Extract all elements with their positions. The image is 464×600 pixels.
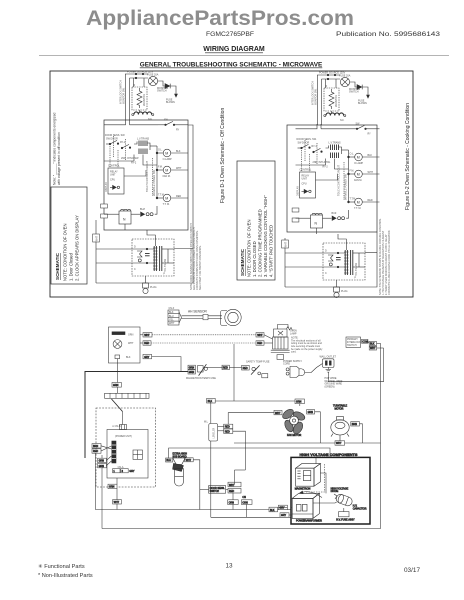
- svg-text:RED: RED: [257, 342, 262, 345]
- svg-text:SWITCH: SWITCH: [347, 344, 357, 347]
- hot wire note block: [325, 377, 343, 388]
- svg-text:TRANSFORMER: TRANSFORMER: [303, 520, 322, 523]
- door sensing switch cluster: [209, 486, 226, 494]
- magnetron antenna wire arrow: [302, 492, 322, 498]
- D2 bottom loop wire: [285, 232, 377, 287]
- wire fan feed y412.7: [233, 412, 274, 414]
- wire bus A y401: [211, 400, 295, 402]
- power unit inner board: [107, 430, 148, 479]
- svg-text:WALL OUTLET: WALL OUTLET: [320, 356, 337, 359]
- svg-text:LEVELER: LEVELER: [213, 427, 216, 438]
- D2 transformer section: [323, 234, 365, 298]
- svg-text:RED: RED: [223, 367, 228, 370]
- long wire to oven lamp 2: [151, 342, 256, 344]
- oil capacitor dark band: [173, 463, 184, 471]
- D2 condition note box: [237, 161, 275, 280]
- svg-text:GRY: GRY: [279, 507, 285, 510]
- vertical x211: [210, 401, 212, 424]
- svg-text:4. “START” PAD TOUCHED: 4. “START” PAD TOUCHED: [269, 225, 274, 277]
- svg-text:SEE CHART FOR SWITCH OPERATION: SEE CHART FOR SWITCH OPERATION.: [199, 245, 202, 290]
- svg-text:RED: RED: [93, 450, 98, 453]
- svg-text:WHT: WHT: [144, 334, 150, 337]
- magnetron bus wire: [85, 372, 188, 459]
- wire capacitor right: [193, 460, 200, 510]
- svg-text:GRN: GRN: [109, 486, 115, 489]
- wire ML up to fan feed: [228, 413, 233, 425]
- hv diode lead: [334, 494, 337, 499]
- svg-text:WHT: WHT: [284, 241, 287, 247]
- svg-text:NOTE: CONDITION OF OVEN: NOTE: CONDITION OF OVEN: [247, 220, 252, 277]
- GRN bottom label: [108, 484, 117, 488]
- svg-text:MAGNETRON TEMP FUSE: MAGNETRON TEMP FUSE: [186, 377, 216, 380]
- svg-text:SCHEMATIC: SCHEMATIC: [240, 248, 245, 276]
- svg-text:WHT: WHT: [275, 412, 281, 415]
- svg-text:2. COOKING TIME PROGRAMMED: 2. COOKING TIME PROGRAMMED: [258, 209, 263, 277]
- svg-text:RED: RED: [225, 430, 230, 433]
- svg-text:CORD: CORD: [283, 363, 290, 366]
- power transformer 3d body: [292, 498, 313, 518]
- svg-text:AH SENSOR: AH SENSOR: [188, 310, 207, 314]
- wire y509: [96, 452, 270, 510]
- turntable motor body: [331, 417, 349, 443]
- svg-text:BLU: BLU: [169, 315, 174, 318]
- svg-text:RED: RED: [229, 490, 234, 493]
- wire ML right drop: [233, 431, 246, 448]
- svg-text:BLK: BLK: [126, 356, 131, 359]
- svg-text:CAPACITOR: CAPACITOR: [353, 507, 367, 510]
- wire fuse to red labels: [207, 366, 223, 368]
- svg-text:GRY: GRY: [129, 470, 135, 473]
- wires labels to CN-A: [101, 446, 111, 449]
- wire fan right: [307, 410, 315, 414]
- svg-text:with voltage present in off co: with voltage present in off condition: [57, 132, 61, 185]
- GRN label box drop: [112, 383, 121, 388]
- svg-text:HIGH VOLTAGE COMPONENTS: HIGH VOLTAGE COMPONENTS: [300, 452, 358, 457]
- svg-text:WHT: WHT: [95, 235, 98, 241]
- svg-text:CN-F: CN-F: [169, 307, 175, 310]
- vertical x234: [233, 344, 235, 401]
- svg-text:3. VARIABLE COOKING CONTROL “H: 3. VARIABLE COOKING CONTROL “HIGH”: [263, 195, 268, 277]
- M.L. unit: [209, 424, 218, 442]
- AH sensor body: [221, 311, 228, 326]
- wire turntable right drop: [359, 424, 362, 443]
- D1 outer loop wire left: [95, 220, 97, 283]
- wire to transformer primary: [285, 252, 323, 254]
- wire bus y443: [234, 442, 381, 444]
- D1 outer loop wire right: [96, 125, 193, 283]
- fan motor blades: [281, 407, 306, 435]
- wire labels GRN pair: [188, 365, 195, 369]
- right boundary wire: [102, 343, 381, 528]
- lamp unit drop wire: [116, 359, 118, 383]
- svg-text:WHT: WHT: [336, 442, 342, 445]
- svg-text:DIODE: DIODE: [331, 490, 339, 493]
- oil capacitor body: [175, 469, 184, 486]
- CN-A lower boxes: [113, 469, 120, 473]
- svg-text:MAGNETRON: MAGNETRON: [295, 488, 311, 491]
- svg-text:GRN: GRN: [128, 333, 134, 336]
- wire labels BRN RED: [92, 444, 101, 448]
- svg-text:GRY: GRY: [144, 356, 150, 359]
- svg-text:GRN: GRN: [189, 371, 195, 374]
- fuse assembly box: [339, 512, 349, 517]
- svg-text:WHT: WHT: [128, 342, 134, 345]
- svg-text:NOTE: CONDITION OF OVEN: NOTE: CONDITION OF OVEN: [63, 224, 68, 281]
- svg-text:WHT: WHT: [370, 347, 376, 350]
- svg-text:1. DOOR CLOSED: 1. DOOR CLOSED: [252, 241, 257, 277]
- svg-text:RED: RED: [144, 342, 149, 345]
- wire lamp to label GRN: [140, 334, 143, 336]
- wire y517: [211, 516, 291, 518]
- D1 condition note box: [51, 187, 87, 284]
- svg-text:FAN MOTOR: FAN MOTOR: [287, 434, 301, 437]
- svg-text:YEL: YEL: [169, 319, 174, 322]
- svg-text:03/17: 03/17: [404, 567, 420, 574]
- D1 inner components: [101, 119, 188, 231]
- D1 transformer section: [132, 230, 174, 294]
- magnetron 3d body: [296, 468, 314, 486]
- note text block mid: [291, 337, 323, 354]
- svg-text:Publication No. 5995686143: Publication No. 5995686143: [336, 31, 441, 38]
- WHT label top of HV: [335, 441, 345, 445]
- svg-text:WHT: WHT: [114, 501, 120, 504]
- horizontal rule under header: [39, 55, 449, 57]
- svg-text:(GREEN): (GREEN): [325, 385, 335, 388]
- wire label boxes right of lamp unit: [143, 333, 152, 337]
- svg-text:GRN: GRN: [99, 465, 105, 468]
- hv capacitor cylinder: [335, 493, 353, 507]
- AH sensor connector pin labels: [169, 307, 175, 325]
- svg-text:MOTOR: MOTOR: [335, 407, 344, 410]
- svg-text:BLU: BLU: [166, 459, 171, 462]
- right inner loop: [328, 348, 383, 382]
- GRY wire to bus: [152, 357, 181, 372]
- CN-B connector stub: [120, 425, 127, 430]
- lamp unit box: [109, 327, 141, 363]
- svg-text:LAMP: LAMP: [290, 332, 297, 335]
- svg-text:CN: CN: [242, 496, 246, 499]
- svg-text:BRN: BRN: [352, 423, 357, 426]
- wire bus y448: [169, 448, 330, 458]
- relay grid on board: [133, 450, 142, 459]
- oil capacitor funnel: [173, 458, 185, 464]
- CN-A connector bar: [112, 441, 116, 463]
- svg-text:H.V. FUSE ASSY: H.V. FUSE ASSY: [336, 518, 355, 521]
- svg-text:WHT: WHT: [169, 322, 175, 325]
- svg-text:AppliancePartsPros.com: AppliancePartsPros.com: [86, 6, 354, 30]
- svg-text:RED: RED: [225, 426, 230, 429]
- svg-text:ORN: ORN: [242, 501, 248, 504]
- svg-text:RED: RED: [243, 367, 248, 370]
- svg-text:BLK: BLK: [270, 509, 275, 512]
- svg-text:WIRING DIAGRAM: WIRING DIAGRAM: [203, 46, 265, 53]
- D2 control section box: [287, 125, 377, 232]
- svg-text:WHT: WHT: [257, 334, 263, 337]
- vertical x102: [101, 455, 103, 529]
- oven lamp socket: [274, 329, 288, 337]
- long wire to oven lamp 1: [152, 334, 256, 336]
- WHT bottom label: [113, 500, 122, 504]
- svg-text:Note: “______” Indicates compo: Note: “______” Indicates components ener…: [53, 113, 57, 185]
- wire power unit drop: [116, 478, 118, 484]
- GRY labels into HV box: [278, 505, 287, 509]
- svg-text:SAFETY TEMP FUSE: SAFETY TEMP FUSE: [246, 361, 270, 364]
- AH sensor harness wire: [182, 315, 223, 317]
- power unit dashed box: [96, 408, 156, 487]
- magnetron temp fuse: [198, 366, 204, 372]
- lamp unit dark header: [112, 332, 125, 335]
- wire label left loop: [93, 234, 100, 242]
- svg-text:SWITCH: SWITCH: [210, 490, 220, 493]
- wire to transformer secondary: [96, 262, 132, 264]
- D1 top power section: [120, 71, 178, 121]
- oven lamp top loop: [278, 325, 289, 330]
- D2 left loop wire: [284, 238, 286, 287]
- svg-text:1. Door Closed: 1. Door Closed: [69, 252, 74, 281]
- cord to outlet lead: [305, 364, 323, 373]
- AH sensor connector: [168, 310, 179, 325]
- svg-text:COM: COM: [362, 340, 368, 343]
- svg-text:GRN: GRN: [99, 460, 105, 463]
- terminal strip: [116, 387, 118, 393]
- svg-text:BLK: BLK: [370, 343, 375, 346]
- svg-text:BLK: BLK: [169, 311, 174, 314]
- wires labels to lamp: [264, 335, 273, 339]
- troubleshooting schematic outer box: [50, 71, 413, 297]
- fan motor hub: [290, 416, 299, 425]
- svg-text:GRN: GRN: [189, 367, 195, 370]
- svg-text:SCHEMATIC: SCHEMATIC: [55, 252, 60, 280]
- svg-text:GRN: GRN: [308, 411, 314, 414]
- lamp bulb symbol: [113, 340, 122, 349]
- wire to transformer primary: [96, 248, 132, 250]
- wire fan top drop: [299, 404, 301, 406]
- wire dashed box to loop: [365, 252, 377, 254]
- svg-text:M.L: M.L: [204, 421, 209, 424]
- wire to transformer secondary: [285, 266, 323, 268]
- high voltage components box: [291, 457, 370, 524]
- svg-text:BRN: BRN: [93, 445, 98, 448]
- svg-text:Figure D-2 Oven Schematic - Co: Figure D-2 Oven Schematic - Cooking Cond…: [405, 103, 411, 210]
- svg-text:FGMC2765PBF: FGMC2765PBF: [206, 31, 254, 38]
- lamp unit connector: [115, 355, 120, 359]
- hv internal dashed route: [306, 464, 325, 492]
- svg-text:BLK: BLK: [208, 400, 213, 403]
- svg-text:cord.: cord.: [291, 351, 297, 354]
- svg-text:GRN: GRN: [296, 401, 302, 404]
- secondary interlock switch block: [346, 337, 361, 347]
- svg-text:Figure D-1 Oven Schematic - Of: Figure D-1 Oven Schematic - Off Conditio…: [220, 108, 226, 203]
- D2 top power section: [312, 72, 370, 122]
- svg-text:GRY: GRY: [281, 514, 287, 517]
- svg-text:ORN: ORN: [229, 501, 235, 504]
- svg-text:(POWER UNIT): (POWER UNIT): [115, 435, 132, 438]
- svg-text:✳ Functional Parts: ✳ Functional Parts: [38, 563, 85, 570]
- svg-text:13: 13: [225, 563, 233, 570]
- wires door sensing cluster: [200, 488, 209, 490]
- wire dashed box to loop: [174, 248, 193, 250]
- strip diagonal lead: [112, 399, 123, 412]
- D2 inner components: [292, 123, 379, 235]
- svg-text:WHT: WHT: [186, 459, 192, 462]
- svg-text:CONTACTS CLOSED DURING COOK CY: CONTACTS CLOSED DURING COOK CYCLE OPERAT…: [388, 230, 391, 295]
- wire label left loop D2: [282, 240, 289, 248]
- hv internal wires: [291, 506, 292, 508]
- svg-text:GENERAL TROUBLESHOOTING SCHEMA: GENERAL TROUBLESHOOTING SCHEMATIC - MICR…: [140, 62, 323, 69]
- D1 control section box: [104, 120, 188, 230]
- svg-text:2. CLOCK APPEARS ON DISPLAY: 2. CLOCK APPEARS ON DISPLAY: [75, 215, 80, 281]
- svg-text:* Non-Illustrated Parts: * Non-Illustrated Parts: [38, 573, 93, 579]
- svg-text:WHT: WHT: [229, 484, 235, 487]
- svg-text:GRN: GRN: [113, 384, 119, 387]
